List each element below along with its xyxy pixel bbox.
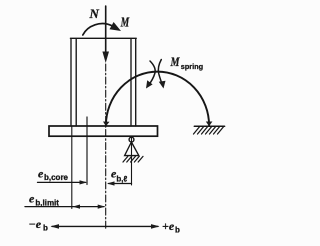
axis right arrowhead [151,224,160,229]
eccentricity axis line [52,225,158,227]
base plate [49,126,158,136]
right fixed ground line [194,125,224,127]
M_spring left arrowhead [146,80,153,88]
dimension e_b,core arrowhead [80,180,88,184]
dimension e_b,l line [109,183,132,185]
svg-text:b,core: b,core [44,173,69,182]
svg-text:spring: spring [181,62,203,71]
spring arc left foot [103,122,110,127]
axis left arrowhead [51,224,60,229]
dimension e_b,limit right arrowhead [98,205,106,209]
svg-text:M: M [170,54,180,69]
column top edge [70,37,136,39]
dimension e_b,core leader line [38,181,86,183]
M_spring left curved arrow [148,61,155,86]
dimension e_b,limit left arrowhead [73,205,81,209]
moment M arrowhead [110,22,122,31]
extension line at support (x=131.5) [131,137,133,186]
svg-text:−e: −e [29,217,42,231]
moment M curved arrow [83,24,112,35]
dimension e_b,limit line [25,206,104,208]
right fixed ground hatching [194,127,224,134]
dimension e_b,l arrowhead [107,181,115,185]
svg-text:b: b [175,226,180,235]
column right edge (double line) [130,39,132,126]
svg-text:e: e [29,191,35,205]
svg-text:b: b [43,223,48,232]
extension line A (column left edge, x=72) [71,126,73,209]
column left edge (double line) [70,39,72,126]
pinned support triangle [125,142,139,156]
force N arrow line [105,6,107,53]
spring arc right foot [206,122,213,127]
centerline (dash-dot axis) [105,64,107,229]
svg-text:b,ℓ: b,ℓ [116,174,127,183]
pinned support circle [129,137,134,142]
extension line B (core boundary, x=86.5) [86,117,88,185]
M_spring right curved arrow [158,60,162,86]
M_spring right arrowhead [159,81,166,89]
spring arc [106,72,209,126]
svg-text:M: M [120,16,130,31]
force N arrowhead [102,52,109,64]
svg-text:b,limit: b,limit [35,199,59,208]
svg-text:N: N [89,6,100,21]
pinned support hatching [123,156,143,162]
svg-text:+e: +e [162,219,175,233]
